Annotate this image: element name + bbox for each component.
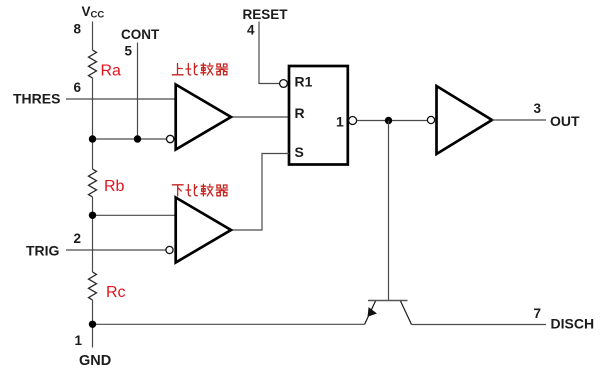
output bubble flip-flop <box>349 117 357 125</box>
svg-text:V: V <box>82 4 91 19</box>
svg-text:2: 2 <box>74 231 82 246</box>
svg-text:Rb: Rb <box>104 178 125 195</box>
svg-text:TRIG: TRIG <box>26 243 60 259</box>
transistor Q1 emitter arrow <box>368 307 378 317</box>
wire divider rail Rb-Rc <box>92 197 94 272</box>
svg-text:R: R <box>295 105 305 121</box>
svg-text:GND: GND <box>79 353 111 369</box>
junction dot output node <box>385 117 392 124</box>
wire RESET to R1 <box>259 22 280 84</box>
wire TRIG to lower comparator <box>66 249 166 251</box>
wire buffer to OUT <box>492 119 546 121</box>
wire lower comparator output to S <box>230 154 290 231</box>
junction dot GND node <box>89 321 96 328</box>
transistor Q1 base bar <box>368 300 408 302</box>
svg-text:RESET: RESET <box>243 7 289 22</box>
svg-text:6: 6 <box>74 80 82 95</box>
svg-text:5: 5 <box>125 44 133 59</box>
junction dot Ra-Rb node <box>89 135 96 142</box>
label 下比较器 <box>172 184 227 196</box>
wire divider rail Ra-Rb <box>92 78 94 169</box>
wire lower comparator + input <box>93 214 177 216</box>
svg-text:1: 1 <box>75 333 83 348</box>
wire collector to DISCH <box>412 324 547 326</box>
wire flip-flop output to buffer <box>357 120 428 122</box>
label 上比较器 <box>172 63 227 75</box>
wire inverting bus to upper comparator <box>93 138 167 140</box>
transistor Q1 emitter <box>365 301 376 325</box>
resistor Rc <box>89 272 97 300</box>
op-amp upper comparator <box>176 85 231 150</box>
transistor Q1 collector <box>401 301 412 325</box>
wire node to transistor base <box>388 121 390 301</box>
wire upper comparator output to R <box>231 116 289 118</box>
svg-text:4: 4 <box>247 23 255 38</box>
inverting bubble upper comparator <box>167 135 174 142</box>
svg-text:DISCH: DISCH <box>551 316 595 332</box>
wire emitter to GND rail <box>93 323 365 325</box>
svg-text:THRES: THRES <box>13 91 60 107</box>
svg-text:7: 7 <box>534 306 542 321</box>
svg-text:CONT: CONT <box>121 27 160 42</box>
op-amp output buffer <box>437 86 493 154</box>
flip-flop box U1 <box>289 66 348 165</box>
svg-text:8: 8 <box>74 22 82 37</box>
svg-text:Rc: Rc <box>106 284 126 301</box>
svg-text:S: S <box>295 144 304 160</box>
resistor Rb <box>89 169 97 197</box>
inverting bubble R1 input <box>280 80 288 88</box>
wire VCC to Ra <box>92 22 94 51</box>
junction dot CONT node <box>134 135 141 142</box>
wire rail Rc to GND <box>92 300 94 348</box>
svg-text:3: 3 <box>534 101 542 116</box>
svg-text:CC: CC <box>91 10 105 21</box>
junction dot Rb-Rc node <box>89 212 96 219</box>
wire CONT down <box>137 43 139 140</box>
node VCC label <box>82 4 105 21</box>
svg-text:OUT: OUT <box>550 113 580 129</box>
svg-text:1: 1 <box>336 114 344 130</box>
inverting bubble buffer input <box>427 116 434 123</box>
svg-text:R1: R1 <box>295 74 313 90</box>
resistor Ra <box>89 50 97 78</box>
op-amp lower comparator <box>176 198 231 263</box>
wire THRES to comparator <box>66 98 176 100</box>
inverting bubble lower comparator <box>166 246 173 253</box>
svg-text:Ra: Ra <box>101 63 122 80</box>
